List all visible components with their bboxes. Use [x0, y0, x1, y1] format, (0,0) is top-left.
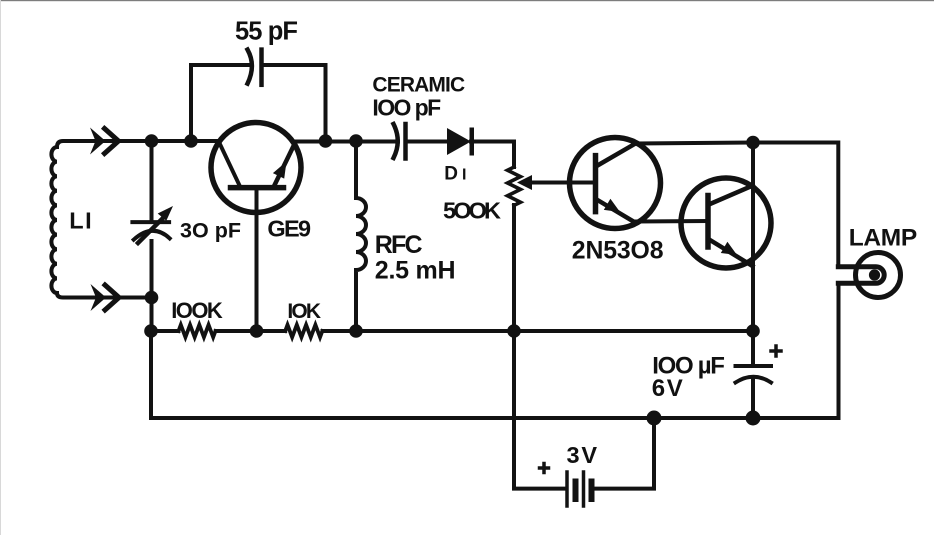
svg-text:CERAMIC: CERAMIC — [372, 74, 465, 97]
svg-text:2N53O8: 2N53O8 — [572, 238, 664, 265]
svg-text:RFC: RFC — [375, 231, 423, 259]
svg-text:6V: 6V — [652, 375, 683, 402]
svg-text:IOOK: IOOK — [171, 298, 223, 323]
svg-text:2.5 mH: 2.5 mH — [375, 257, 456, 285]
svg-text:LI: LI — [69, 208, 91, 234]
svg-text:D: D — [444, 164, 458, 185]
svg-text:IOK: IOK — [287, 300, 321, 323]
svg-text:IOO pF: IOO pF — [372, 94, 441, 120]
svg-text:GE9: GE9 — [267, 216, 311, 242]
svg-text:3V: 3V — [567, 442, 598, 468]
svg-text:55 pF: 55 pF — [235, 18, 298, 46]
svg-text:LAMP: LAMP — [849, 225, 917, 252]
svg-text:3O pF: 3O pF — [180, 219, 241, 243]
svg-text:5OOK: 5OOK — [443, 198, 501, 224]
svg-text:I: I — [462, 167, 466, 184]
